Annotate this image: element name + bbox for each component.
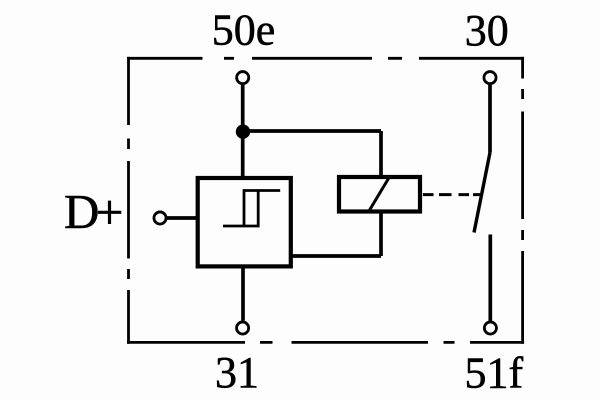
svg-text:D: D: [64, 184, 99, 239]
dashed mechanical link from coil to switch blade: [423, 193, 481, 196]
terminal 31 circle: [237, 322, 249, 334]
wire: switch fixed contact stem up from terminal 51f: [488, 235, 492, 322]
node: junction dot on 50e wire: [236, 125, 250, 139]
relay enclosure border (dash-dot) bottom side: [127, 341, 524, 344]
relay coil K1 outline: [339, 177, 420, 212]
schmitt trigger box U1 outline: [198, 178, 291, 266]
terminal 30 circle: [484, 72, 496, 84]
svg-text:51f: 51f: [464, 349, 523, 398]
wire: junction to relay coil (horizontal then down): [243, 131, 381, 176]
terminal 50e circle: [237, 72, 249, 84]
schmitt trigger hysteresis symbol: [223, 191, 280, 227]
wire: D+ terminal to trigger box input: [167, 216, 197, 220]
terminal 51f circle: [484, 322, 496, 334]
relay coil diagonal stroke: [369, 176, 390, 211]
wire: terminal 50e down through junction to trigger box top: [241, 85, 245, 178]
svg-text:50e: 50e: [212, 6, 276, 55]
switch S1 movable contact blade: [474, 153, 490, 233]
terminal D+ circle: [154, 212, 166, 224]
relay enclosure border (dash-dot) left side: [127, 57, 130, 344]
wire: horizontal from trigger box right edge to coil bottom wire: [291, 254, 381, 258]
svg-text:31: 31: [215, 348, 259, 397]
relay enclosure border (dash-dot) right side: [521, 57, 524, 344]
wire: trigger box bottom to terminal 31: [241, 266, 245, 321]
relay enclosure border (dash-dot) top side: [127, 57, 524, 60]
label D+ (plus sign): [98, 201, 122, 224]
wire: relay coil bottom down: [379, 212, 383, 257]
wire: terminal 30 stem down to switch pivot: [488, 85, 492, 153]
svg-text:30: 30: [465, 6, 509, 55]
